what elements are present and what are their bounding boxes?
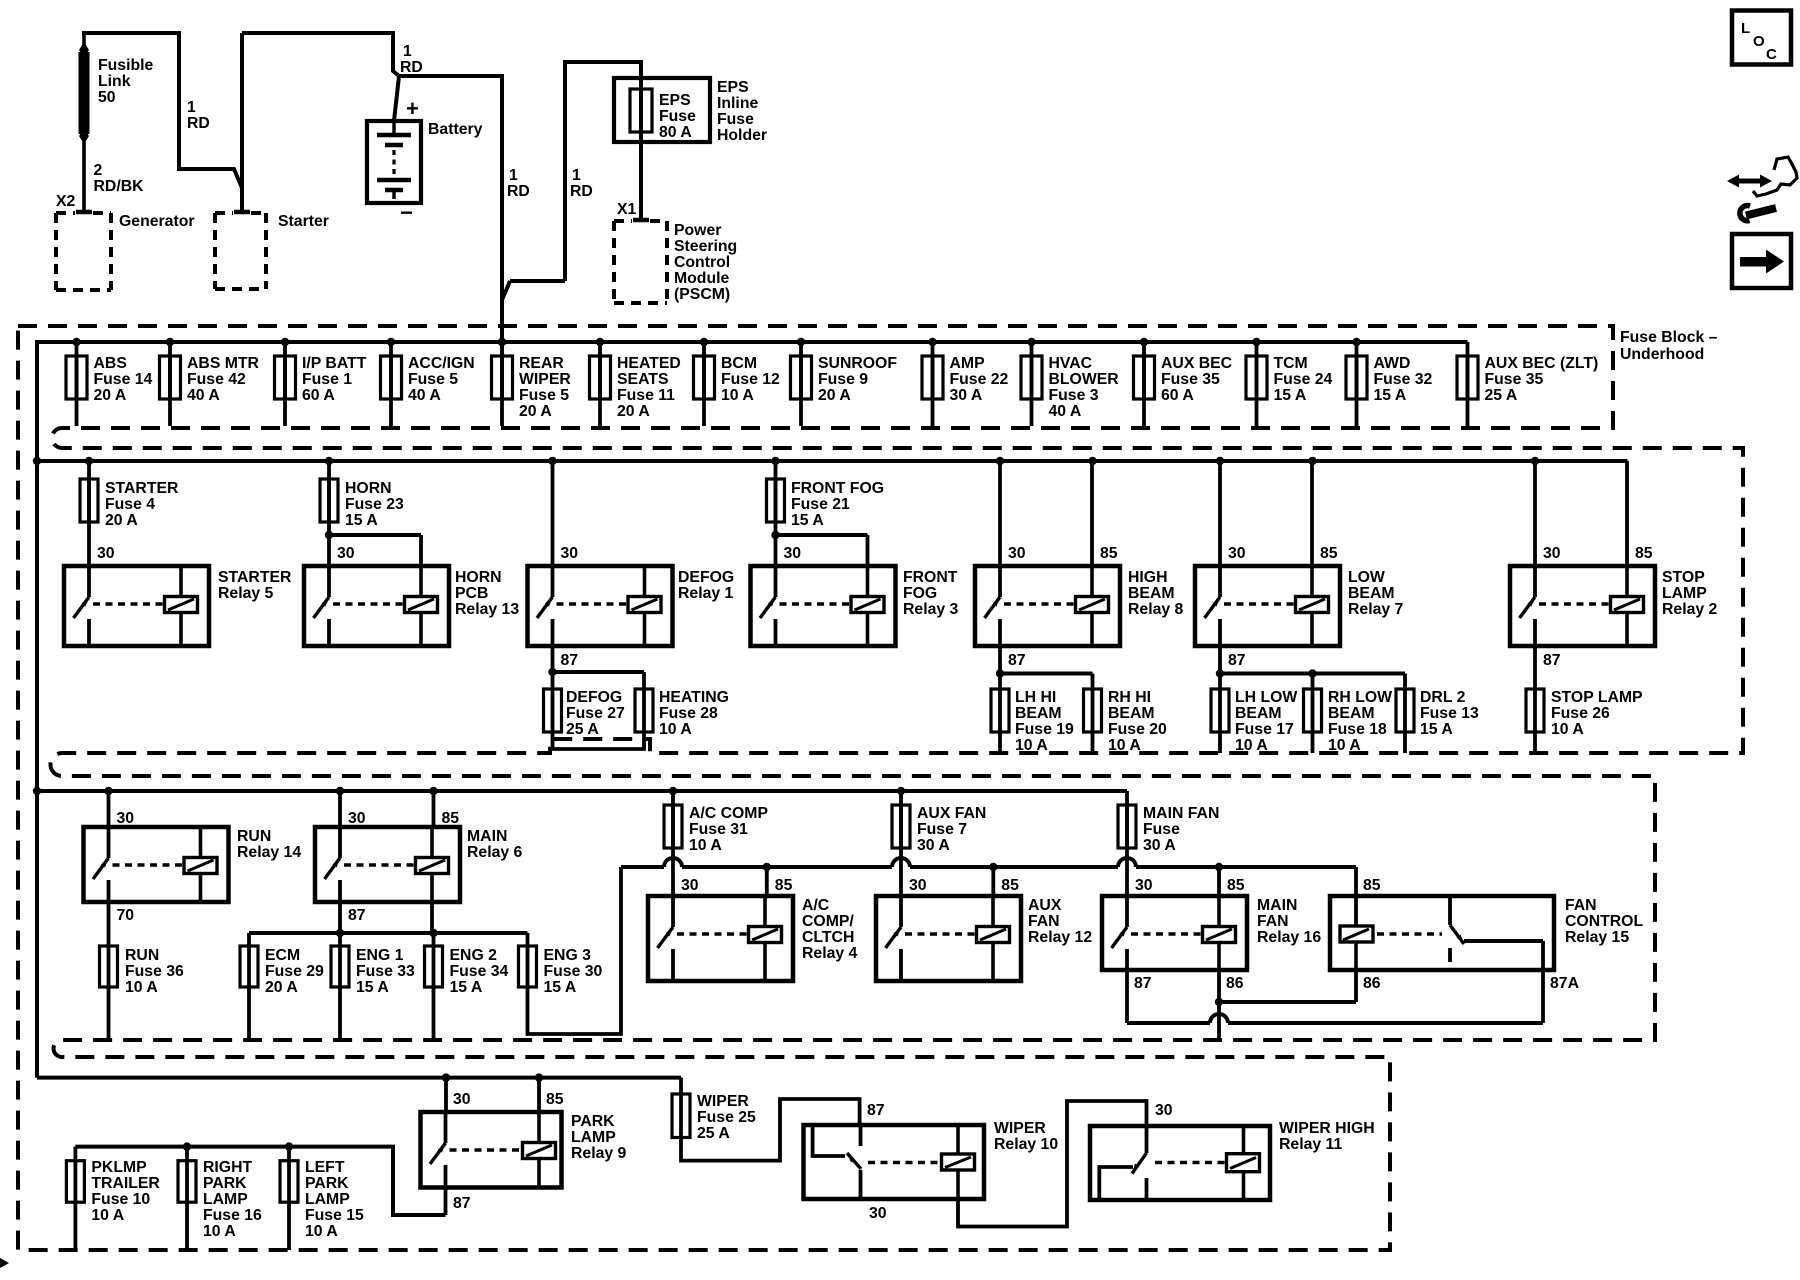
svg-text:Fuse 12: Fuse 12 (721, 371, 780, 388)
svg-text:Control: Control (674, 254, 730, 271)
svg-text:DEFOG: DEFOG (566, 689, 622, 706)
svg-text:BEAM: BEAM (1235, 705, 1282, 722)
svg-text:30: 30 (1008, 545, 1026, 562)
svg-text:Fuse 11: Fuse 11 (617, 387, 675, 404)
svg-text:BCM: BCM (721, 355, 757, 372)
svg-text:87: 87 (348, 907, 366, 924)
svg-text:30: 30 (1155, 1102, 1173, 1119)
svg-text:15 A: 15 A (450, 979, 483, 996)
svg-text:87: 87 (561, 652, 579, 669)
svg-text:Fuse 35: Fuse 35 (1161, 371, 1220, 388)
svg-text:Fuse: Fuse (717, 111, 754, 128)
svg-text:87: 87 (1543, 652, 1561, 669)
svg-text:86: 86 (1363, 975, 1381, 992)
svg-text:1: 1 (509, 167, 518, 184)
svg-text:20 A: 20 A (265, 979, 298, 996)
svg-text:Fuse Block –: Fuse Block – (1620, 329, 1718, 346)
svg-text:PCB: PCB (455, 585, 488, 602)
svg-text:87: 87 (1008, 652, 1026, 669)
svg-text:RH LOW: RH LOW (1328, 689, 1392, 706)
svg-text:X2: X2 (56, 193, 76, 210)
svg-text:Fuse 21: Fuse 21 (791, 496, 850, 513)
svg-text:10 A: 10 A (1551, 721, 1584, 738)
svg-text:STARTER: STARTER (105, 480, 179, 497)
svg-text:Relay 8: Relay 8 (1128, 601, 1184, 618)
svg-text:10 A: 10 A (203, 1223, 236, 1240)
svg-text:TCM: TCM (1274, 355, 1308, 372)
svg-text:Fuse 30: Fuse 30 (544, 963, 603, 980)
svg-text:BEAM: BEAM (1108, 705, 1155, 722)
svg-text:LAMP: LAMP (203, 1191, 248, 1208)
svg-text:85: 85 (442, 810, 460, 827)
svg-text:Fuse 17: Fuse 17 (1235, 721, 1294, 738)
svg-text:Fuse 32: Fuse 32 (1374, 371, 1433, 388)
svg-text:LAMP: LAMP (305, 1191, 350, 1208)
svg-text:AWD: AWD (1374, 355, 1411, 372)
svg-text:MAIN FAN: MAIN FAN (1143, 805, 1219, 822)
svg-text:HEATING: HEATING (659, 689, 729, 706)
svg-text:C: C (1766, 46, 1777, 63)
svg-text:Holder: Holder (717, 127, 767, 144)
svg-text:HORN: HORN (345, 480, 392, 497)
svg-text:CLTCH: CLTCH (802, 929, 854, 946)
svg-text:COMP/: COMP/ (802, 913, 854, 930)
svg-text:BEAM: BEAM (1328, 705, 1375, 722)
svg-text:Fuse 23: Fuse 23 (345, 496, 404, 513)
svg-text:25 A: 25 A (1485, 387, 1518, 404)
svg-text:20 A: 20 A (818, 387, 851, 404)
svg-text:Link: Link (98, 73, 131, 90)
svg-text:X1: X1 (617, 201, 637, 218)
svg-text:85: 85 (1100, 545, 1118, 562)
svg-text:Relay 3: Relay 3 (903, 601, 959, 618)
svg-text:Fuse 25: Fuse 25 (697, 1109, 756, 1126)
svg-text:+: + (406, 96, 419, 121)
svg-text:ECM: ECM (265, 947, 300, 964)
svg-text:Fuse 29: Fuse 29 (265, 963, 324, 980)
svg-text:Fuse 28: Fuse 28 (659, 705, 718, 722)
svg-text:Fuse 42: Fuse 42 (187, 371, 246, 388)
svg-text:AMP: AMP (950, 355, 985, 372)
svg-text:Fuse 5: Fuse 5 (519, 387, 569, 404)
svg-text:PARK: PARK (305, 1175, 349, 1192)
svg-text:Fuse 33: Fuse 33 (356, 963, 415, 980)
svg-text:Relay 2: Relay 2 (1662, 601, 1718, 618)
svg-text:LAMP: LAMP (571, 1129, 616, 1146)
svg-text:MAIN: MAIN (467, 828, 507, 845)
svg-text:DRL 2: DRL 2 (1420, 689, 1466, 706)
svg-text:20 A: 20 A (105, 512, 138, 529)
svg-text:LH LOW: LH LOW (1235, 689, 1297, 706)
svg-text:LH HI: LH HI (1015, 689, 1056, 706)
svg-text:FOG: FOG (903, 585, 937, 602)
svg-text:30: 30 (909, 877, 927, 894)
svg-text:RUN: RUN (125, 947, 159, 964)
svg-text:30 A: 30 A (950, 387, 983, 404)
svg-text:BLOWER: BLOWER (1049, 371, 1120, 388)
svg-text:CONTROL: CONTROL (1565, 913, 1643, 930)
svg-text:O: O (1753, 33, 1765, 50)
svg-text:Relay 9: Relay 9 (571, 1145, 627, 1162)
svg-text:PARK: PARK (203, 1175, 247, 1192)
svg-text:LAMP: LAMP (1662, 585, 1707, 602)
svg-text:30: 30 (1228, 545, 1246, 562)
svg-text:STARTER: STARTER (218, 569, 292, 586)
svg-text:LEFT: LEFT (305, 1159, 345, 1176)
svg-text:30: 30 (97, 545, 115, 562)
svg-text:Fuse 24: Fuse 24 (1274, 371, 1333, 388)
svg-text:30: 30 (561, 545, 579, 562)
svg-text:1: 1 (572, 167, 581, 184)
svg-text:LOW: LOW (1348, 569, 1385, 586)
svg-text:Relay 6: Relay 6 (467, 844, 523, 861)
svg-text:RIGHT: RIGHT (203, 1159, 252, 1176)
svg-text:Fuse 22: Fuse 22 (950, 371, 1009, 388)
svg-text:Relay 4: Relay 4 (802, 945, 858, 962)
svg-text:25 A: 25 A (697, 1125, 730, 1142)
svg-text:Fuse 19: Fuse 19 (1015, 721, 1074, 738)
svg-text:87: 87 (1134, 975, 1152, 992)
svg-text:SEATS: SEATS (617, 371, 669, 388)
svg-text:Fuse 36: Fuse 36 (125, 963, 184, 980)
svg-text:Inline: Inline (717, 95, 758, 112)
svg-text:AUX BEC: AUX BEC (1161, 355, 1232, 372)
svg-text:10 A: 10 A (721, 387, 754, 404)
svg-text:WIPER: WIPER (519, 371, 571, 388)
svg-text:15 A: 15 A (356, 979, 389, 996)
svg-text:Relay 1: Relay 1 (678, 585, 734, 602)
svg-text:EPS: EPS (717, 79, 749, 96)
svg-text:WIPER: WIPER (697, 1093, 749, 1110)
svg-text:60 A: 60 A (302, 387, 335, 404)
svg-text:Relay 16: Relay 16 (1257, 929, 1321, 946)
svg-text:Fuse 14: Fuse 14 (94, 371, 153, 388)
svg-text:40 A: 40 A (408, 387, 441, 404)
svg-text:A/C COMP: A/C COMP (689, 805, 768, 822)
svg-text:Relay 14: Relay 14 (237, 844, 301, 861)
svg-text:Starter: Starter (278, 213, 329, 230)
svg-text:DEFOG: DEFOG (678, 569, 734, 586)
svg-text:AUX FAN: AUX FAN (917, 805, 986, 822)
svg-text:Fuse 7: Fuse 7 (917, 821, 967, 838)
svg-text:Power: Power (674, 222, 721, 239)
svg-text:Fuse 20: Fuse 20 (1108, 721, 1167, 738)
svg-text:−: − (400, 200, 413, 225)
svg-text:10 A: 10 A (125, 979, 158, 996)
svg-text:ENG 2: ENG 2 (450, 947, 498, 964)
svg-text:FRONT: FRONT (903, 569, 958, 586)
svg-text:15 A: 15 A (544, 979, 577, 996)
svg-text:AUX BEC (ZLT): AUX BEC (ZLT) (1485, 355, 1599, 372)
svg-text:BEAM: BEAM (1348, 585, 1395, 602)
svg-text:Generator: Generator (119, 213, 195, 230)
svg-text:30: 30 (453, 1091, 471, 1108)
svg-text:Underhood: Underhood (1620, 346, 1704, 363)
svg-text:30: 30 (784, 545, 802, 562)
svg-text:Relay 10: Relay 10 (994, 1136, 1058, 1153)
svg-text:Fuse 35: Fuse 35 (1485, 371, 1544, 388)
svg-text:30: 30 (681, 877, 699, 894)
svg-text:Relay 11: Relay 11 (1279, 1136, 1342, 1153)
svg-text:87: 87 (453, 1195, 471, 1212)
svg-text:Fuse 4: Fuse 4 (105, 496, 155, 513)
svg-text:15 A: 15 A (791, 512, 824, 529)
svg-text:60 A: 60 A (1161, 387, 1194, 404)
svg-text:1: 1 (403, 43, 412, 60)
svg-text:MAIN: MAIN (1257, 897, 1297, 914)
svg-text:Fuse 18: Fuse 18 (1328, 721, 1387, 738)
svg-text:87: 87 (1228, 652, 1246, 669)
svg-text:REAR: REAR (519, 355, 564, 372)
svg-text:WIPER HIGH: WIPER HIGH (1279, 1120, 1375, 1137)
svg-text:30: 30 (337, 545, 355, 562)
svg-text:RD: RD (400, 59, 423, 76)
svg-text:HORN: HORN (455, 569, 502, 586)
svg-text:10 A: 10 A (91, 1207, 124, 1224)
svg-text:AUX: AUX (1028, 897, 1062, 914)
svg-text:15 A: 15 A (1374, 387, 1407, 404)
svg-text:WIPER: WIPER (994, 1120, 1046, 1137)
svg-text:15 A: 15 A (1274, 387, 1307, 404)
svg-text:30: 30 (1543, 545, 1561, 562)
svg-text:Relay 5: Relay 5 (218, 585, 274, 602)
svg-text:SUNROOF: SUNROOF (818, 355, 897, 372)
svg-text:85: 85 (1320, 545, 1338, 562)
svg-text:Fuse 26: Fuse 26 (1551, 705, 1610, 722)
svg-text:40 A: 40 A (187, 387, 220, 404)
svg-text:15 A: 15 A (1420, 721, 1453, 738)
svg-text:85: 85 (775, 877, 793, 894)
svg-text:10 A: 10 A (1328, 737, 1361, 754)
svg-text:RUN: RUN (237, 828, 271, 845)
svg-text:Relay 15: Relay 15 (1565, 929, 1629, 946)
svg-text:Fuse 1: Fuse 1 (302, 371, 352, 388)
svg-text:50: 50 (98, 89, 116, 106)
svg-text:A/C: A/C (802, 897, 829, 914)
svg-text:Fuse 16: Fuse 16 (203, 1207, 262, 1224)
svg-text:20 A: 20 A (519, 403, 552, 420)
svg-text:Module: Module (674, 270, 729, 287)
svg-text:20 A: 20 A (94, 387, 127, 404)
svg-text:87: 87 (867, 1102, 885, 1119)
svg-text:RD: RD (507, 183, 530, 200)
svg-text:RH HI: RH HI (1108, 689, 1151, 706)
svg-text:10 A: 10 A (689, 837, 722, 854)
svg-text:70: 70 (117, 907, 135, 924)
svg-text:HVAC: HVAC (1049, 355, 1093, 372)
svg-text:10 A: 10 A (1108, 737, 1141, 754)
svg-text:1: 1 (187, 99, 196, 116)
svg-text:85: 85 (1227, 877, 1245, 894)
svg-text:BEAM: BEAM (1128, 585, 1175, 602)
svg-text:FAN: FAN (1257, 913, 1289, 930)
svg-text:Relay 7: Relay 7 (1348, 601, 1404, 618)
svg-text:Fuse 34: Fuse 34 (450, 963, 509, 980)
svg-text:85: 85 (1363, 877, 1381, 894)
svg-text:ABS MTR: ABS MTR (187, 355, 260, 372)
svg-text:86: 86 (1226, 975, 1244, 992)
svg-text:Relay 12: Relay 12 (1028, 929, 1092, 946)
svg-text:85: 85 (546, 1091, 564, 1108)
svg-text:FAN: FAN (1028, 913, 1060, 930)
svg-text:HIGH: HIGH (1128, 569, 1168, 586)
svg-text:FRONT FOG: FRONT FOG (791, 480, 884, 497)
svg-text:EPS: EPS (659, 92, 691, 109)
svg-text:Fuse 13: Fuse 13 (1420, 705, 1479, 722)
svg-text:STOP: STOP (1662, 569, 1705, 586)
svg-text:FAN: FAN (1565, 897, 1597, 914)
svg-text:30 A: 30 A (917, 837, 950, 854)
svg-text:Fuse 15: Fuse 15 (305, 1207, 364, 1224)
svg-text:10 A: 10 A (305, 1223, 338, 1240)
svg-text:40 A: 40 A (1049, 403, 1082, 420)
svg-text:Fuse 27: Fuse 27 (566, 705, 625, 722)
svg-text:25 A: 25 A (566, 721, 599, 738)
svg-text:PARK: PARK (571, 1113, 615, 1130)
svg-text:RD: RD (570, 183, 593, 200)
svg-text:ABS: ABS (94, 355, 127, 372)
svg-text:Battery: Battery (428, 121, 483, 138)
svg-text:BEAM: BEAM (1015, 705, 1062, 722)
svg-text:I/P BATT: I/P BATT (302, 355, 367, 372)
svg-text:10 A: 10 A (1015, 737, 1048, 754)
svg-text:Fuse: Fuse (1143, 821, 1180, 838)
svg-text:Fuse 10: Fuse 10 (91, 1191, 150, 1208)
svg-text:Fuse 3: Fuse 3 (1049, 387, 1099, 404)
svg-text:Fuse 31: Fuse 31 (689, 821, 748, 838)
svg-text:Fuse 9: Fuse 9 (818, 371, 868, 388)
svg-text:STOP LAMP: STOP LAMP (1551, 689, 1643, 706)
svg-text:10 A: 10 A (659, 721, 692, 738)
svg-text:85: 85 (1001, 877, 1019, 894)
svg-text:RD/BK: RD/BK (94, 178, 145, 195)
svg-text:30: 30 (1135, 877, 1153, 894)
svg-text:87A: 87A (1550, 975, 1579, 992)
svg-text:2: 2 (94, 162, 103, 179)
svg-text:80 A: 80 A (659, 124, 692, 141)
svg-text:ENG 1: ENG 1 (356, 947, 404, 964)
svg-text:30: 30 (117, 810, 135, 827)
svg-text:Fusible: Fusible (98, 57, 154, 74)
svg-text:Steering: Steering (674, 238, 737, 255)
svg-text:PKLMP: PKLMP (91, 1159, 146, 1176)
svg-text:30 A: 30 A (1143, 837, 1176, 854)
svg-text:HEATED: HEATED (617, 355, 681, 372)
svg-text:RD: RD (187, 115, 210, 132)
svg-text:TRAILER: TRAILER (91, 1175, 160, 1192)
svg-text:10 A: 10 A (1235, 737, 1268, 754)
svg-text:20 A: 20 A (617, 403, 650, 420)
svg-text:85: 85 (1635, 545, 1653, 562)
svg-text:15 A: 15 A (345, 512, 378, 529)
svg-text:L: L (1741, 20, 1750, 37)
svg-text:(PSCM): (PSCM) (674, 286, 730, 303)
svg-text:ENG 3: ENG 3 (544, 947, 592, 964)
svg-text:Fuse 5: Fuse 5 (408, 371, 458, 388)
svg-text:30: 30 (869, 1205, 887, 1222)
svg-text:30: 30 (348, 810, 366, 827)
svg-text:Relay 13: Relay 13 (455, 601, 519, 618)
svg-text:Fuse: Fuse (659, 108, 696, 125)
svg-text:ACC/IGN: ACC/IGN (408, 355, 475, 372)
